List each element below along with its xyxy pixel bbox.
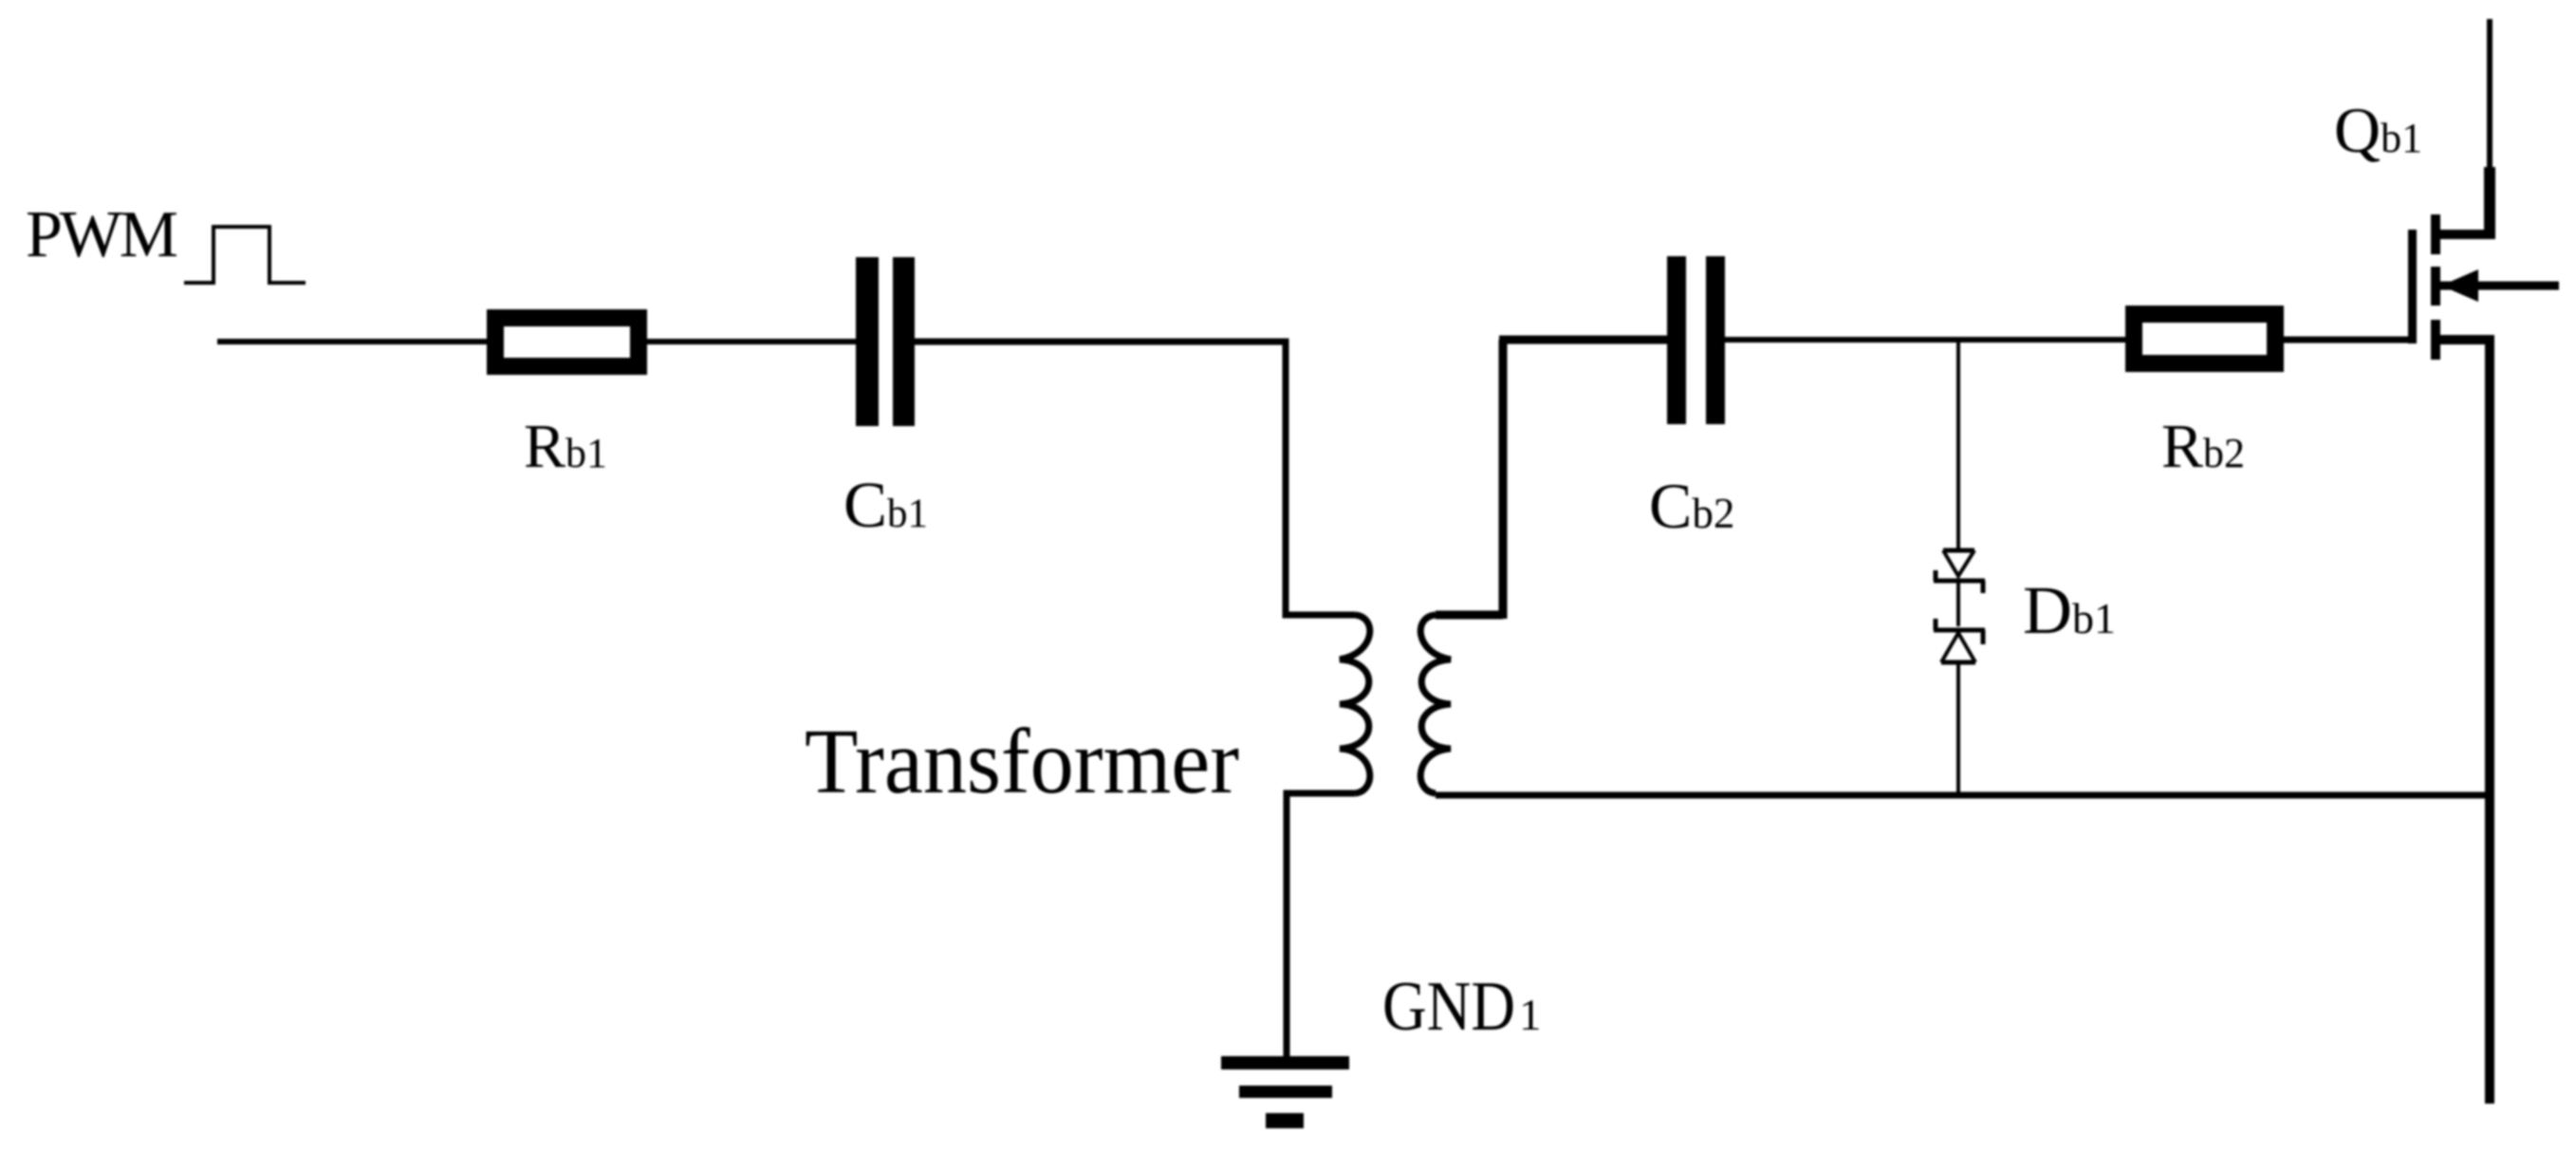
svg-text:PWM: PWM [26,198,178,271]
svg-text:1: 1 [1519,991,1542,1040]
svg-text:GND: GND [1382,968,1515,1046]
svg-text:Transformer: Transformer [805,711,1239,812]
